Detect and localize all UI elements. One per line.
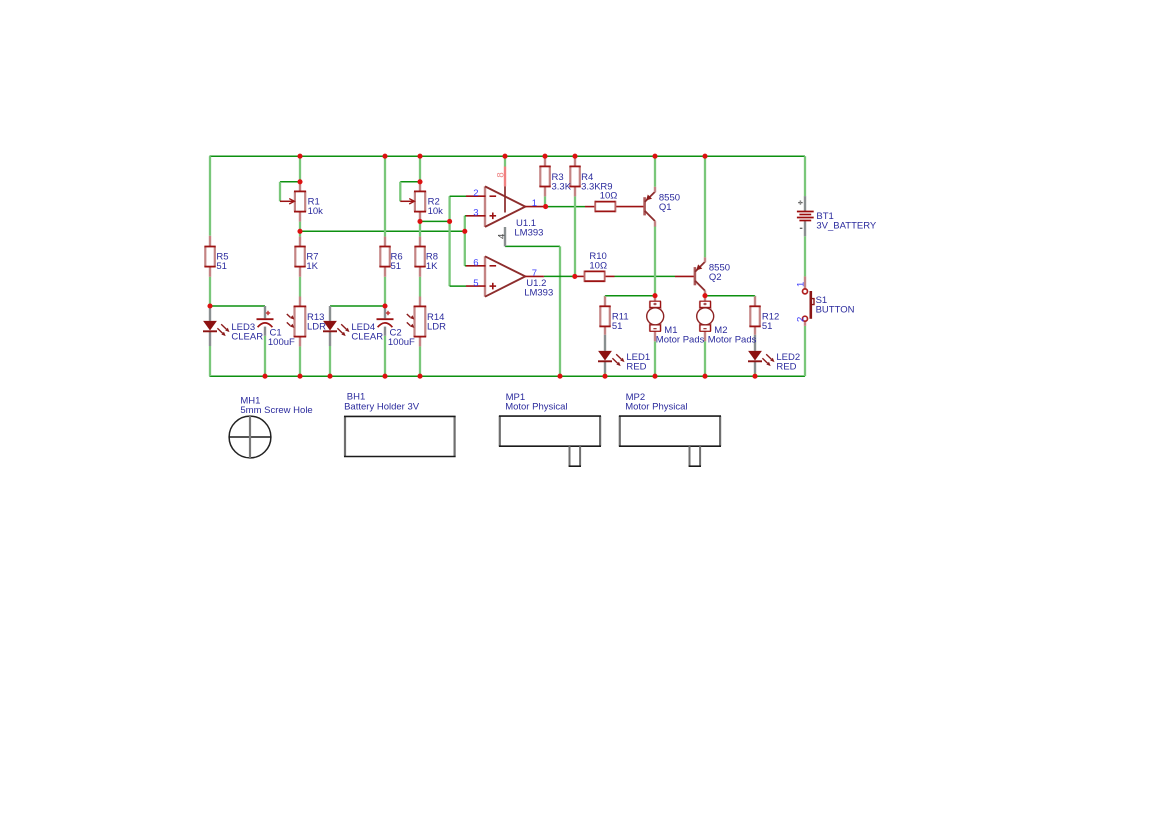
resistor R7 [294,237,305,277]
junction ground pin4 [557,374,562,379]
svg-text:LM393: LM393 [524,287,553,298]
junction ground LED1 [602,374,607,379]
wire LED4 bottom [329,346,331,376]
wire R11 corner [604,296,606,297]
wire LED1 bottom [604,373,606,377]
led LED3 [203,306,230,346]
COMPONENTS [203,156,814,466]
photoresistor R13 [287,297,306,347]
svg-text:8: 8 [495,172,506,177]
junction ground R14 [417,374,422,379]
wire M2 bottom [704,341,706,376]
op-amp U1.2 pin 6 [466,265,486,267]
svg-text:2: 2 [795,317,806,322]
wire R3 bottom to pin1 node [544,196,546,206]
junction pin7 output [572,274,577,279]
op-amp U1.1 pin 3 [466,215,486,217]
wire Q2 collector node to R12 [705,295,755,297]
pushbutton S1 [803,276,815,326]
photoresistor R14 [407,297,426,347]
svg-text:4: 4 [497,234,508,239]
junction rail R6 [382,154,387,159]
battery holder BH1 [344,416,456,456]
junction ground LED2 [752,374,757,379]
led LED2 [748,335,775,373]
svg-text:LDR: LDR [307,321,326,332]
wire to pin 6 [465,265,466,267]
wire C2 bottom [384,336,386,376]
wire R4 bottom to pin7 node [574,196,576,276]
wire column to pins 3 and 6 [464,216,466,266]
svg-text:Motor Pads: Motor Pads [708,334,757,345]
wire R10 to Q2 base [615,275,676,277]
led LED1 [598,335,625,373]
resistor R9 [585,201,645,213]
wire rail to R6 [384,156,386,236]
led LED4 [323,306,350,346]
svg-text:100uF: 100uF [268,337,295,348]
wire top power rail [210,155,806,157]
wire bottom ground rail [210,375,806,377]
junction pins 2-5 column [447,219,452,224]
op-amp U1.2 pin 5 [466,285,486,287]
svg-text:3V_BATTERY: 3V_BATTERY [816,221,877,232]
wire pin4 to ground column [505,245,560,247]
junction R2 bottom [417,219,422,224]
wire R1 node to opamp inputs 3 6 [300,230,465,232]
wire R6 bottom to node [384,277,386,306]
junction ground M2 [702,374,707,379]
wire rail to R2 loop [419,156,421,182]
transistor Q1 [645,187,655,227]
potentiometer R1 [280,182,306,222]
wire to pin 2 [450,195,466,197]
svg-text:2: 2 [473,188,478,199]
wire pin7 to node [544,275,575,277]
WIRES [210,156,806,376]
resistor R6 [379,237,390,277]
junction ground LED4 [327,374,332,379]
wire R2 loop horizontal [400,181,420,183]
junction node R6 LED4 C2 [382,303,387,308]
svg-text:10k: 10k [308,206,324,217]
junction ground C2 [382,374,387,379]
svg-text:Q1: Q1 [659,202,672,213]
svg-text:RED: RED [626,361,646,372]
svg-text:Motor Physical: Motor Physical [625,402,687,413]
resistor R3 [539,156,550,196]
svg-text:BUTTON: BUTTON [816,305,855,316]
op-amp U1.1 pin 4 [504,227,506,246]
op-amp U1.2 [466,256,544,296]
TEXTS [216,172,877,416]
junction rail R2 [417,154,422,159]
svg-text:LM393: LM393 [514,228,543,239]
junction ground R13 [297,374,302,379]
junction M2 top [702,293,707,298]
junction rail R4 [572,154,577,159]
svg-text:100uF: 100uF [388,337,415,348]
wire to pin 3 [465,215,466,217]
svg-text:5: 5 [473,278,478,289]
junction ground M1 [652,374,657,379]
junction pins 3-6 column [462,229,467,234]
wire LED4 to C2 top [330,305,385,307]
wire R13 bottom [299,346,301,376]
wire rail to R1 loop [299,156,301,182]
junction rail R3 [542,154,547,159]
svg-text:RED: RED [776,361,796,372]
mounting hole MH1 [229,416,271,458]
resistor R4 [569,156,580,196]
wire R14 bottom [419,346,421,376]
wire M1 bottom [654,341,656,376]
wire R2 loop vertical [399,182,401,202]
junction M1 top [652,293,657,298]
svg-text:CLEAR: CLEAR [231,331,263,342]
wire R5 bottom to node [209,277,211,306]
svg-text:51: 51 [216,261,227,272]
svg-text:1K: 1K [426,261,438,272]
wire R2 node to opamp inputs 2 5 [420,220,450,222]
wire to pin 5 [450,285,466,287]
svg-text:10Ω: 10Ω [600,191,618,202]
battery BT1 [797,196,814,236]
svg-text:10Ω: 10Ω [589,260,607,271]
svg-text:1K: 1K [306,261,318,272]
svg-text:6: 6 [473,258,478,269]
svg-text:Motor Pads: Motor Pads [656,334,705,345]
svg-text:3.3K: 3.3K [581,182,601,193]
svg-text:51: 51 [391,261,402,272]
DOTS [207,154,757,379]
junction R1 bottom [297,229,302,234]
wire button to bottom rail [804,326,806,376]
wire ground column [559,246,561,376]
svg-text:51: 51 [612,321,623,332]
wire rail to pin 8 [504,156,506,166]
svg-text:5mm Screw Hole: 5mm Screw Hole [240,405,312,416]
motor M2 [697,296,714,341]
wire column to pins 2 and 5 [448,196,450,286]
wire node to C1 top [210,305,265,307]
svg-text:10k: 10k [428,206,444,217]
wire LED2 bottom [754,373,756,377]
svg-text:LDR: LDR [427,321,446,332]
wire R7 to R13 [299,277,301,297]
motor footprint MP1 [499,416,601,466]
wire R2 bottom to R8 [419,221,421,236]
op-amp U1.1 pin 1 [525,206,545,208]
svg-text:3: 3 [473,208,478,219]
svg-text:CLEAR: CLEAR [351,331,383,342]
svg-text:7: 7 [532,268,537,279]
wire pin1 node to R9 [546,206,585,208]
op-amp U1.1 [466,167,546,247]
svg-text:1: 1 [795,282,806,287]
junction rail pin8 [502,154,507,159]
wire battery to button [804,236,806,276]
wire LED3 bottom [209,346,211,376]
wire node to R11 [605,295,655,297]
potentiometer R2 [400,182,426,222]
wire left border vertical [209,156,211,236]
wire Q1 collector to M1 [654,226,656,295]
capacitor C1 [257,306,274,336]
resistor R8 [414,237,425,277]
transistor Q2 [675,257,705,296]
capacitor C2 [377,306,394,336]
wire R1 loop vertical [279,182,281,202]
wire R1 loop horizontal [280,181,300,183]
junction ground C1 [262,374,267,379]
op-amp U1.2 pin 7 [525,275,544,277]
wire C1 bottom [264,336,266,376]
resistor R5 [204,236,215,277]
wire rail to Q2 emitter [704,156,706,257]
wire R8 to R14 [419,277,421,297]
junction rail Q2 [702,154,707,159]
junction R1 loop [297,179,302,184]
resistor R11 [599,296,610,334]
svg-text:Motor Physical: Motor Physical [505,402,567,413]
svg-text:51: 51 [762,321,773,332]
resistor R12 [749,296,760,334]
junction rail Q1 [652,154,657,159]
op-amp U1.1 pin 8 [504,167,506,187]
svg-text:1: 1 [532,198,537,209]
wire R1 bottom to R7 [299,222,301,237]
wire rail to Q1 emitter [654,156,656,187]
svg-text:3.3K: 3.3K [552,182,572,193]
junction rail R1 [297,154,302,159]
wire R12 corner [754,296,756,297]
svg-text:Battery Holder 3V: Battery Holder 3V [344,401,420,412]
op-amp U1.1 pin 2 [466,195,486,197]
svg-text:Q2: Q2 [709,272,722,283]
junction pin1 output [543,204,548,209]
motor M1 [647,296,664,341]
resistor R10 [575,271,615,283]
wire rail to battery [804,156,806,196]
motor footprint MP2 [619,416,721,466]
junction R2 loop [417,179,422,184]
junction node R5 LED3 C1 [207,303,212,308]
